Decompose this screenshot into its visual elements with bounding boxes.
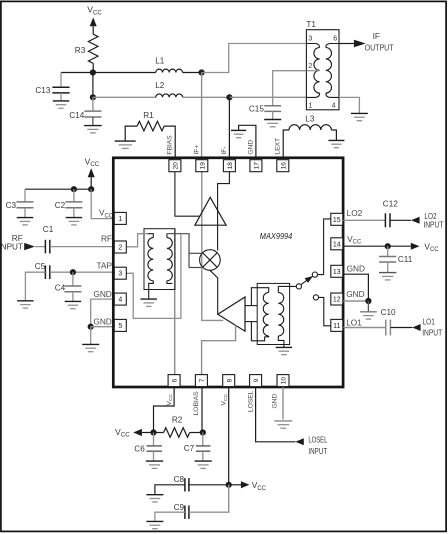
wire R3 to node [92,63,94,72]
wire pin10 to ground [282,387,284,420]
switch blade [301,281,307,285]
pin 11 box [331,319,343,331]
svg-text:LEXT: LEXT [275,138,282,155]
IF OUTPUT arrow [354,40,366,47]
pin 3 box [114,267,126,279]
wire pin18 internal [218,164,230,251]
wire throw LO2 to pin15 [318,219,331,275]
ground pin17 [231,129,246,131]
svg-text:C5: C5 [35,262,46,271]
ground pins4/5 [82,343,99,345]
svg-text:1: 1 [118,216,122,223]
svg-text:VCC: VCC [252,480,267,492]
ground LO balun [276,346,293,348]
LO1 INPUT arrow [412,324,420,331]
svg-text:C7: C7 [184,444,195,453]
pin 17 box [250,160,262,172]
pin 14 box [331,238,343,250]
wire C5 to pin 3 [50,271,114,273]
RF balun primary winding [148,234,153,238]
svg-text:OUTPUT: OUTPUT [365,43,394,52]
node L2/IF- [226,94,232,100]
ground C15 [264,119,281,121]
svg-text:10: 10 [281,377,288,385]
switch pole contact [296,284,301,289]
node GND12/13 [365,298,371,304]
svg-text:C14: C14 [69,111,84,120]
svg-text:TAP: TAP [96,261,112,271]
pin 6 box [168,375,180,387]
wire node to VCC arrow (bottom right) [229,484,241,486]
svg-text:2: 2 [308,63,312,70]
svg-text:LOSEL: LOSEL [247,390,254,412]
wire VCC to pin 1 [91,189,114,218]
svg-text:C12: C12 [383,199,398,208]
node VCC C8/C9 [226,482,232,488]
svg-text:15: 15 [333,217,341,224]
svg-text:12: 12 [333,297,341,304]
RF balun box [144,229,175,290]
svg-text:IF-: IF- [221,147,228,155]
ground C13 [53,100,70,102]
wire pin13 to node [343,274,369,301]
ground C7 [195,460,212,462]
wire pin3 TAP path [126,234,180,319]
svg-text:19: 19 [199,162,206,170]
node C7 [200,429,206,435]
ground pins12/13 [360,311,377,313]
svg-text:RF: RF [101,233,112,243]
wire LO amp bottom to balun [245,321,257,323]
svg-text:9: 9 [253,378,260,382]
wire pin2 to balun [126,234,149,247]
ground RF balun [140,298,157,300]
svg-text:3: 3 [308,36,312,43]
node L2/C14 [90,94,96,100]
svg-text:FBIAS: FBIAS [167,135,174,155]
ground C6 [146,460,163,462]
svg-text:LO1: LO1 [423,317,436,326]
pin 12 box [331,293,343,305]
svg-text:LOBIAS: LOBIAS [193,391,200,416]
svg-text:C13: C13 [35,86,50,95]
pin 7 box [195,375,207,387]
wire pin7 to R2 node [201,387,203,433]
wire node to VCC arrow [388,245,411,247]
svg-text:GND: GND [248,140,255,155]
svg-text:17: 17 [254,162,261,170]
wire arrow to node [142,432,154,434]
ground C2 [66,217,83,219]
LO balun box [257,283,289,344]
svg-text:4: 4 [332,102,336,109]
node C4/TAP [70,269,76,275]
VCC arrow (bottom) [133,429,142,436]
wire IF+ drop to pin 19 [201,73,203,161]
wire T1 pin4 to ground [339,97,359,113]
wire pin11 to C10 [343,327,386,329]
svg-text:C15: C15 [249,104,264,113]
ground C11 [379,272,396,274]
svg-text:R3: R3 [75,46,86,55]
wire node to ground [367,301,369,311]
wire pin8 to VCC node [228,387,230,485]
wire L1 rail left [61,72,93,74]
wire L2 node to T1 pin1 [229,96,306,98]
wire pin19 internal [202,164,224,320]
T1 primary tap (pin2) [306,70,319,72]
svg-text:VCC: VCC [99,208,114,220]
svg-text:2: 2 [118,245,122,252]
pin 20 box [169,160,181,172]
svg-text:13: 13 [333,269,341,276]
wire pin4 to node [91,299,114,327]
pin 9 box [250,375,262,387]
svg-text:VCC: VCC [85,156,100,168]
wire pin6 internal [174,229,176,380]
wire balun out to mixer [167,234,189,268]
svg-text:VCC: VCC [87,5,102,17]
RF INPUT arrow [24,243,35,250]
node GND4/5 [88,324,94,330]
T1 secondary winding [326,44,339,48]
node VCC/pin1 [88,186,94,192]
ground R1 [115,140,136,142]
wire node to ground [90,327,92,344]
ground C14 [84,125,102,127]
svg-text:7: 7 [199,378,206,382]
LO2 INPUT arrow [411,217,420,224]
wire pin6 to R2 node [154,387,175,433]
svg-text:3: 3 [118,271,122,278]
pin 10 box [277,375,289,387]
svg-text:GND: GND [347,263,365,273]
wire balun to switch pole [278,285,296,287]
svg-text:VCC: VCC [166,394,174,406]
svg-text:16: 16 [280,162,287,170]
svg-text:C9: C9 [174,503,185,512]
IC MAX9994 body [113,158,343,387]
wire C12 to arrow [390,219,411,221]
wire pin17 to ground [239,125,256,158]
op-amp LO buffer [218,297,245,331]
svg-text:LO2: LO2 [347,208,363,218]
node C11 [385,243,391,249]
svg-text:VCC: VCC [424,241,439,253]
wire R1 left to ground [125,126,137,141]
svg-text:MAX9994: MAX9994 [260,232,293,241]
wire pin7 internal [202,325,236,380]
svg-text:GND: GND [346,289,364,299]
svg-text:18: 18 [227,162,234,170]
wire T1 pin6 to IF output [339,43,354,45]
svg-text:LOSEL: LOSEL [308,435,327,444]
ground C8 [146,494,163,496]
svg-text:4: 4 [118,297,122,304]
VCC arrow (bottom right) [241,481,250,488]
wire IF- drop to pin 18 [228,97,230,160]
svg-text:INPUT: INPUT [422,328,442,337]
wire T1 pin2 feed [273,71,307,106]
wire R1 to FBIAS pin 20 [164,126,175,158]
svg-text:C11: C11 [398,255,413,264]
node C2 [71,186,77,192]
transformer T1 box [306,30,339,110]
pin 4 box [114,293,126,305]
wire VCC rail [25,188,91,190]
wire C9 to VCC node [189,485,229,512]
wire node to C14 node [92,73,94,98]
LOSEL INPUT arrow [295,438,304,445]
RF balun secondary winding [167,238,172,281]
svg-text:C8: C8 [174,475,185,484]
svg-text:R1: R1 [143,111,154,120]
svg-text:GND: GND [93,316,111,326]
ground C9 [146,520,163,522]
ground C5 [17,300,34,302]
node L1/IF+ [199,69,205,75]
svg-text:IF: IF [373,32,380,41]
wire pin15 to C12 [343,219,386,221]
svg-text:C4: C4 [55,284,66,293]
svg-text:6: 6 [333,36,337,43]
svg-text:L2: L2 [155,81,165,90]
pin 8 box [223,375,235,387]
op-amp IF amplifier [195,197,226,225]
svg-text:LO1: LO1 [346,317,362,327]
svg-text:INPUT: INPUT [0,242,23,251]
svg-text:T1: T1 [306,20,316,29]
pin 16 box [277,160,289,172]
svg-text:5: 5 [118,323,122,330]
wire balun to ground [148,290,150,299]
wire C10 to arrow [390,327,412,329]
svg-text:GND: GND [93,289,111,299]
pin 19 box [196,160,208,172]
LO balun primary winding [263,288,269,293]
svg-text:C3: C3 [6,201,17,210]
pin 1 box [114,212,126,224]
svg-text:VCC: VCC [115,427,130,439]
svg-text:INPUT: INPUT [308,447,327,456]
svg-text:1: 1 [308,102,312,109]
wire pin9 to LOSEL [256,387,296,442]
svg-text:INPUT: INPUT [423,221,443,230]
wire throw LO1 to pin11 [319,297,331,325]
svg-text:VCC: VCC [220,394,228,406]
node C6 [150,429,156,435]
svg-text:GND: GND [272,394,279,409]
ground L3 [328,139,344,141]
pin 18 box [223,160,235,172]
wire pin12 to node [343,300,369,302]
svg-text:20: 20 [173,162,180,170]
wire pin14 VCC [343,245,388,247]
svg-text:L1: L1 [155,57,165,66]
svg-text:C10: C10 [381,308,396,317]
svg-text:VCC: VCC [347,234,362,246]
ground pin10 [274,420,292,422]
svg-text:11: 11 [333,323,340,330]
pin 5 box [114,319,126,331]
svg-text:C1: C1 [43,225,54,234]
node R3/L1/C13 [90,69,96,75]
svg-text:IF+: IF+ [193,145,200,155]
pin 2 box [114,241,126,253]
switch throw LO1 [313,295,318,300]
svg-text:R2: R2 [172,415,183,424]
pin 13 box [331,265,343,277]
mixer [200,250,221,271]
svg-text:C6: C6 [134,444,145,453]
wire pin20 internal [175,164,200,216]
wire mixer to LO amp [210,270,218,314]
VCC arrow (right) [411,243,420,250]
svg-text:6: 6 [172,378,179,382]
svg-text:8: 8 [226,378,233,382]
T1 primary winding [306,44,319,48]
wire L1 node to T1 pin3 [202,44,307,73]
svg-text:C2: C2 [55,201,66,210]
ground C3 [17,217,34,219]
LO balun secondary winding [278,292,283,336]
pin 15 box [331,213,343,225]
svg-text:14: 14 [333,241,341,248]
ground T1 pin4 [351,112,368,114]
svg-text:L3: L3 [305,114,315,123]
switch throw LO2 [312,272,317,277]
wire pin5 to node [91,326,114,328]
ground C4 [65,300,82,302]
wire LO amp top to balun [245,305,257,307]
